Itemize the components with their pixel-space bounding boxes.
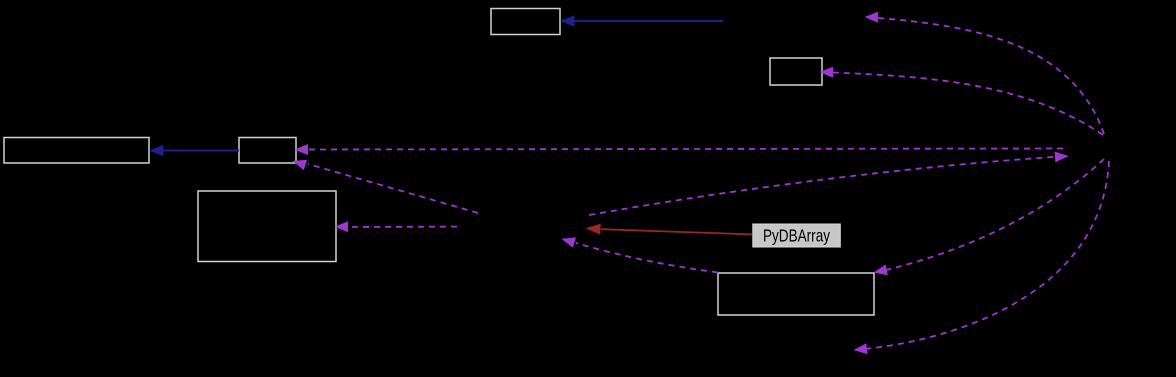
edge Y->X (dashed purple arrow pointing right into X)	[589, 152, 1069, 216]
node B4 (small empty class box)	[239, 138, 296, 164]
edge B4->B3 (blue inheritance arrow into B3)	[149, 145, 239, 157]
node PyDBArray (filled grey label box)	[753, 224, 841, 247]
edge Y->B4 (dashed purple diagonal into B4 lower)	[293, 160, 479, 213]
svg-text:PyDBArray: PyDBArray	[763, 225, 830, 245]
node B7 (empty class box, lower right)	[718, 273, 874, 315]
edge X->B4 (long dashed purple line into B4)	[295, 144, 1064, 155]
edge PyDBArray->Y (dark red arrow, points left)	[586, 224, 753, 235]
node B3 (wide empty class box, left)	[4, 138, 149, 164]
edge Z->B1 (blue inheritance arrow into B1)	[560, 15, 723, 27]
edge X->B7 (dashed purple arc into B7 top-right corner)	[874, 159, 1105, 275]
node B5 (large empty class box)	[198, 191, 336, 262]
edge B7->Y (dashed purple diagonal up-left)	[562, 237, 719, 272]
node B2 (empty class box, upper right)	[770, 58, 822, 85]
node B1 (empty class box, top centre)	[491, 9, 560, 35]
edge X->W (big dashed purple arc to bottom arrowhead)	[854, 161, 1110, 354]
edge X->B2 (dashed purple arc into B2)	[820, 67, 1104, 135]
edge X->Z (dashed purple arc to top)	[865, 12, 1105, 134]
edge Y->B5 (dashed purple horizontal into B5)	[335, 221, 458, 232]
